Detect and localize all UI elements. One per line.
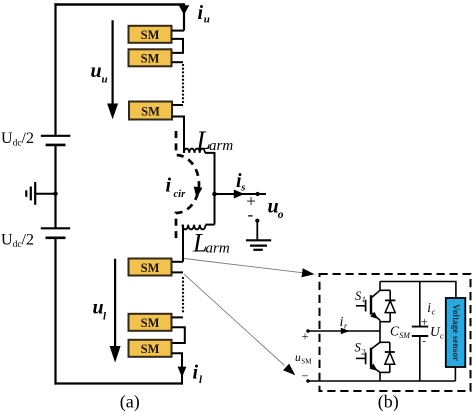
inductor L_arm upper xyxy=(184,149,205,153)
svg-text:+: + xyxy=(302,330,309,344)
svg-text:-: - xyxy=(422,335,426,347)
svg-text:SM: SM xyxy=(141,261,160,275)
label i_u xyxy=(198,2,210,25)
wire top rail detail xyxy=(380,282,456,300)
diode D1 xyxy=(380,290,395,321)
wire dotted continuation lower arm xyxy=(182,277,184,313)
svg-text:SM: SM xyxy=(141,342,160,356)
submodule SM1 xyxy=(129,26,172,43)
svg-text:SM: SM xyxy=(141,316,160,330)
submodule SM2 xyxy=(129,49,172,66)
wire to ground xyxy=(256,221,258,241)
label i_s xyxy=(236,170,245,194)
svg-text:+: + xyxy=(421,315,428,329)
label u_o xyxy=(268,195,284,220)
arrow current i_s xyxy=(234,190,245,199)
arrow current i_r xyxy=(341,328,350,335)
svg-text:SM: SM xyxy=(399,331,411,340)
label i_cir xyxy=(166,175,187,200)
wire SM2 bottom stub xyxy=(172,61,184,63)
svg-text:SM: SM xyxy=(141,104,160,118)
svg-text:i: i xyxy=(340,315,344,330)
wire junction to lower coil xyxy=(206,194,215,225)
svg-text:o: o xyxy=(278,209,284,221)
svg-text:u: u xyxy=(102,74,108,86)
wire left rail upper segment xyxy=(54,3,56,135)
submodule SM3 xyxy=(129,102,172,120)
svg-text:1: 1 xyxy=(362,295,366,304)
label S1 xyxy=(355,289,366,304)
node ground dot xyxy=(255,219,259,223)
svg-text:2: 2 xyxy=(362,347,366,356)
svg-text:SM: SM xyxy=(301,357,312,365)
wire i_r input xyxy=(308,330,380,332)
wire SM1 top stub xyxy=(172,30,185,32)
wire SM6 bottom stub and drop xyxy=(172,353,183,384)
label i_c xyxy=(427,300,435,317)
arrow i_cir head xyxy=(194,187,203,199)
wire dotted continuation upper arm xyxy=(182,64,184,103)
source Udc/2 upper battery xyxy=(41,136,71,145)
arc circulating current i_cir dashed xyxy=(176,131,199,243)
wire SM3 bottom stub and drop xyxy=(172,117,184,153)
label L_arm lower xyxy=(192,229,230,258)
svg-text:(b): (b) xyxy=(378,392,399,411)
label u_SM xyxy=(295,352,312,365)
svg-text:i: i xyxy=(198,2,204,24)
wire output xyxy=(215,193,267,195)
svg-text:arm: arm xyxy=(206,241,230,257)
svg-text:(a): (a) xyxy=(120,392,140,411)
svg-text:cir: cir xyxy=(174,189,187,200)
wire upper coil to bus xyxy=(205,153,215,194)
svg-text:arm: arm xyxy=(209,138,233,154)
label i_r xyxy=(340,315,349,331)
submodule SM4 xyxy=(129,259,172,276)
svg-text:u: u xyxy=(295,352,301,364)
submodule SM6 xyxy=(129,340,172,357)
node output junction xyxy=(212,192,217,197)
svg-text:c: c xyxy=(432,307,436,316)
label U_c xyxy=(430,324,444,341)
wire right bus top drop xyxy=(183,3,185,30)
wire SM1-SM2 bracket xyxy=(172,39,184,53)
sensor voltage box xyxy=(446,298,466,367)
box detail SM dashed xyxy=(320,274,471,391)
wire bottom rail detail xyxy=(308,380,455,382)
label u_l xyxy=(93,297,108,323)
svg-text:u: u xyxy=(204,13,210,25)
wire left rail middle segment xyxy=(54,145,56,228)
svg-text:i: i xyxy=(166,175,172,197)
wire left rail lower segment xyxy=(54,238,56,385)
svg-text:c: c xyxy=(440,332,444,341)
wire SM5 top stub xyxy=(172,316,184,318)
node midpoint dot xyxy=(53,192,57,196)
svg-text:SM: SM xyxy=(141,28,160,42)
wire SM3 top stub xyxy=(172,104,183,106)
pointer line lower to detail xyxy=(184,274,285,365)
pointer line upper to detail xyxy=(184,259,302,273)
diode D2 xyxy=(380,342,395,372)
label i_l xyxy=(193,362,204,386)
wire top bus xyxy=(54,3,184,5)
svg-text:u: u xyxy=(93,297,104,319)
wire midnode xyxy=(379,331,381,342)
svg-text:i: i xyxy=(193,362,199,384)
wire ground stub xyxy=(35,193,55,195)
label L_arm upper xyxy=(196,126,234,155)
arrow pointer lower xyxy=(283,364,295,376)
svg-text:Voltage sensor: Voltage sensor xyxy=(451,304,461,361)
arrow current i_l xyxy=(178,367,187,378)
submodule SM5 xyxy=(129,314,172,331)
wire SM4 bottom stub xyxy=(172,271,183,273)
source Udc/2 lower battery xyxy=(41,228,70,238)
wire lower coil to SM4 xyxy=(182,225,184,262)
wire SM5-SM6 bracket xyxy=(172,327,185,343)
ground output symbol xyxy=(246,240,271,250)
arrow pointer upper xyxy=(302,268,315,277)
svg-text:u: u xyxy=(91,60,102,82)
svg-text:-: - xyxy=(248,205,254,224)
ground left symbol xyxy=(26,182,35,205)
transistor S1 IGBT xyxy=(356,282,380,332)
node SM terminal upper xyxy=(306,329,310,333)
label C_SM xyxy=(390,324,411,340)
node output end dot xyxy=(256,192,260,196)
svg-text:S: S xyxy=(355,341,362,355)
capacitor C_SM xyxy=(412,282,428,382)
wire SM4 top stub xyxy=(172,261,183,263)
inductor L_arm lower xyxy=(182,225,205,230)
svg-text:SM: SM xyxy=(141,52,160,66)
transistor S2 IGBT xyxy=(356,342,380,381)
node SM terminal lower xyxy=(306,379,310,383)
label S2 xyxy=(355,341,366,357)
wire sensor bottom xyxy=(454,367,456,381)
svg-text:s: s xyxy=(240,182,245,193)
arrow voltage u_l xyxy=(110,259,121,363)
arrow current i_u xyxy=(179,5,190,15)
label u_u xyxy=(91,60,108,86)
arrow voltage u_u xyxy=(107,20,118,119)
wire bottom bus xyxy=(54,382,183,384)
